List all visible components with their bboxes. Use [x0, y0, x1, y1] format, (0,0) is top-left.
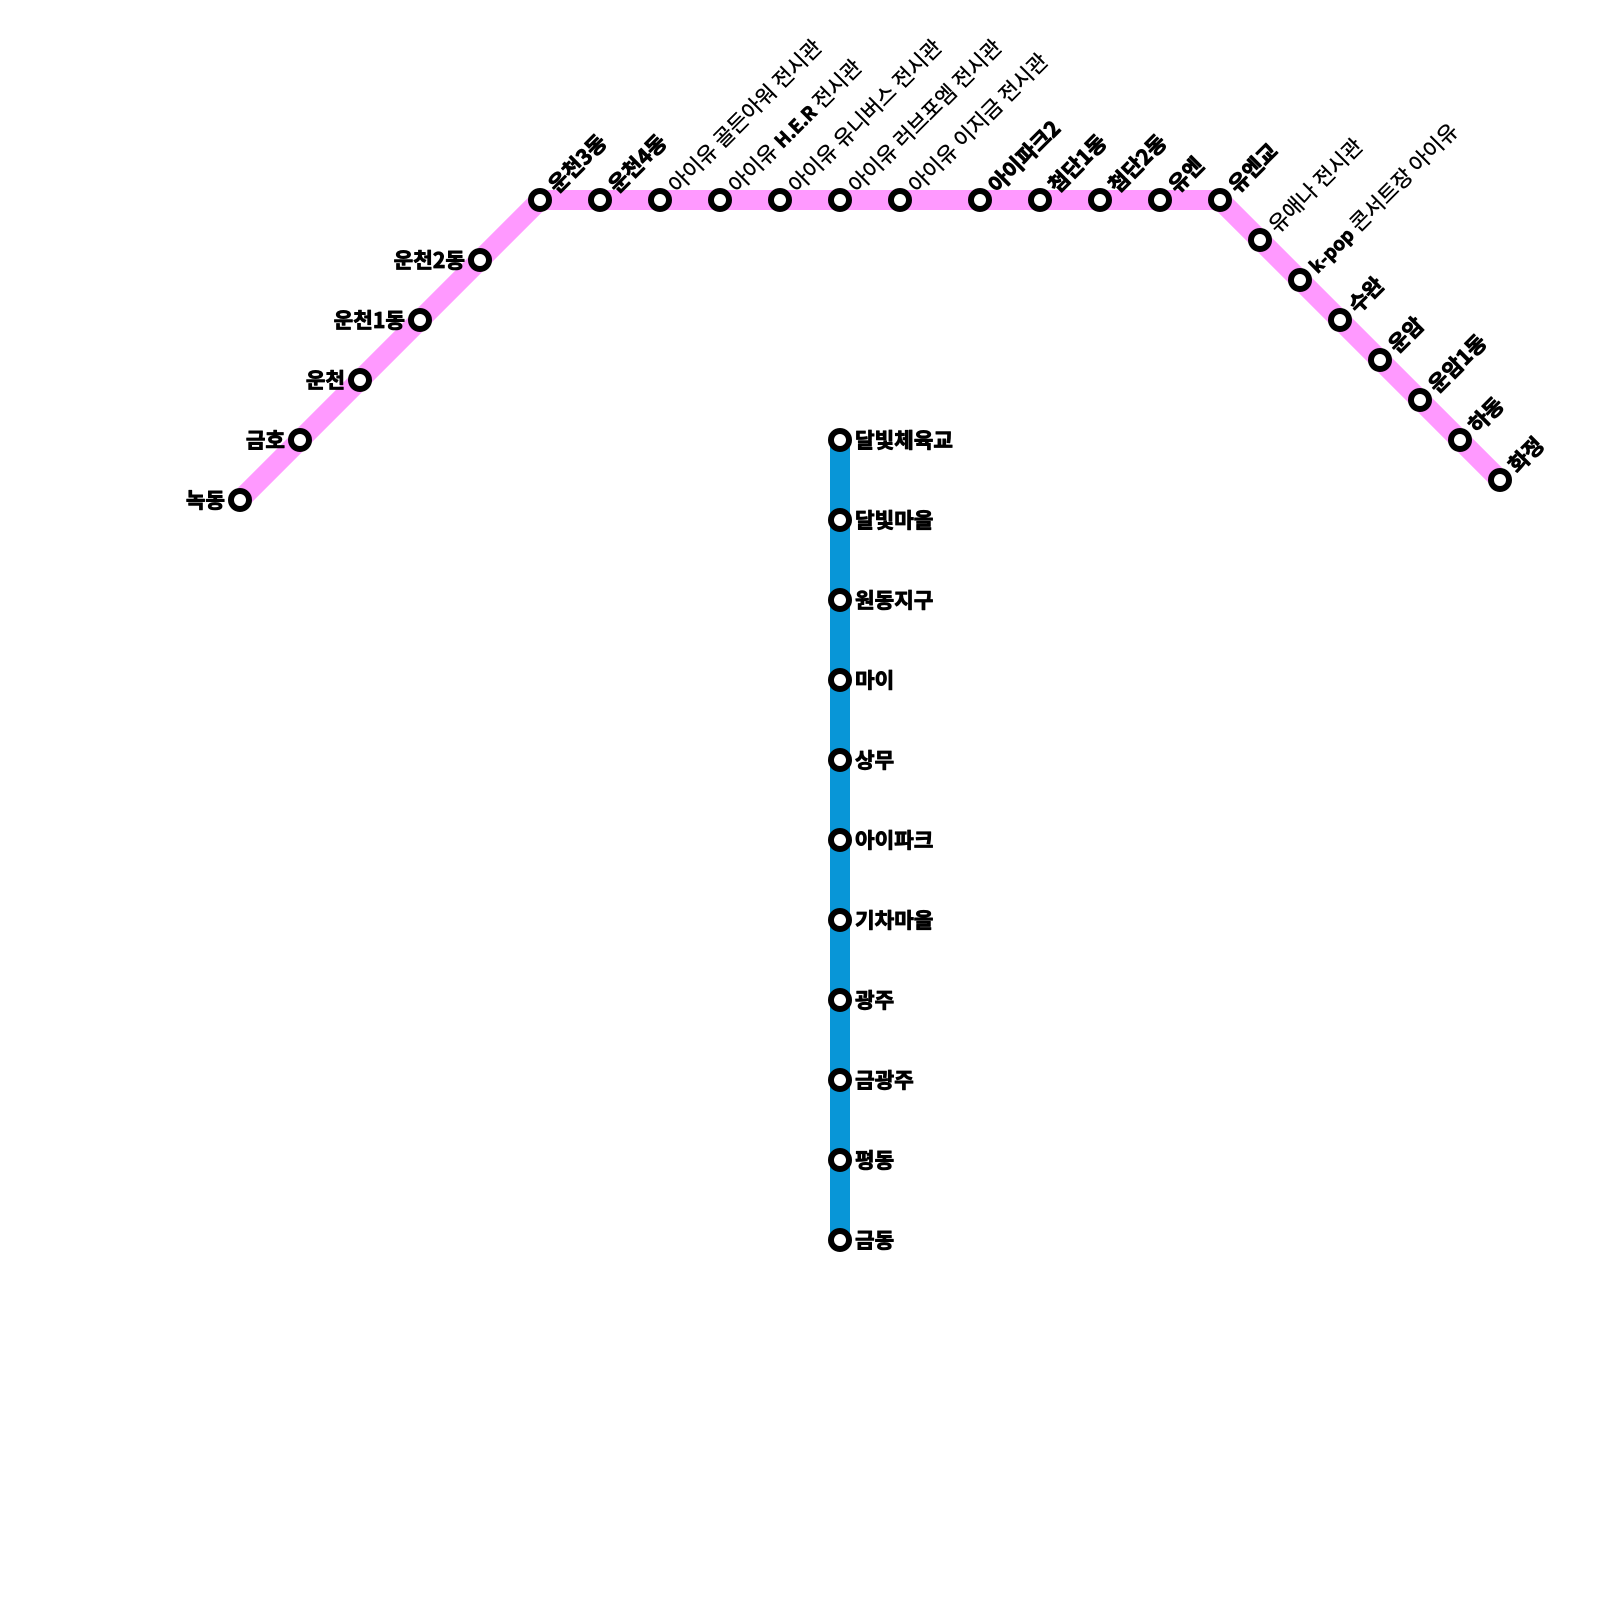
label 아이유 러브포엠 전시관: [846, 37, 1004, 195]
station 아이파크: [831, 831, 849, 849]
station 하동: [1451, 431, 1469, 449]
label 운천: [307, 370, 344, 389]
station 광주: [831, 991, 849, 1009]
label 아이유 이지금 전시관: [906, 51, 1050, 195]
station 원동지구: [831, 591, 849, 609]
station 운천3동: [531, 191, 549, 209]
label 첨단1동: [1045, 132, 1108, 195]
station 아이유 유니버스 전시관: [771, 191, 789, 209]
label 평동: [856, 1150, 893, 1170]
station 평동: [831, 1151, 849, 1169]
station 수완: [1331, 311, 1349, 329]
label 아이유 유니버스 전시관: [786, 37, 944, 195]
station 아이유 골든아워 전시관: [651, 191, 669, 209]
label 아이파크: [856, 830, 933, 850]
label 달빛마을: [857, 510, 933, 530]
label 유애나 전시관: [1266, 136, 1365, 235]
blue metro line 2 (달빛체육교-금동): [830, 440, 850, 1240]
station 기차마을: [831, 911, 849, 929]
station 운천4동: [591, 191, 609, 209]
label 광주: [856, 990, 894, 1010]
pink metro line 1 (녹동-화정): [240, 200, 1500, 500]
station 금호: [291, 431, 309, 449]
label 원동지구: [856, 590, 933, 610]
label 수완: [1346, 274, 1387, 315]
label 금호: [247, 430, 284, 449]
station 운천1동: [411, 311, 429, 329]
label 운천4동: [606, 132, 669, 195]
label 마이: [856, 670, 891, 690]
label 유엔교: [1226, 141, 1280, 195]
station 상무: [831, 751, 849, 769]
station 아이유 이지금 전시관: [891, 191, 909, 209]
label 하동: [1465, 394, 1506, 435]
station 아이파크2: [971, 191, 989, 209]
label 기차마을: [856, 910, 933, 930]
label 운암1동: [1426, 332, 1489, 395]
label 금동: [856, 1231, 893, 1250]
station 첨단2동: [1091, 191, 1109, 209]
station 마이: [831, 671, 849, 689]
station 금광주: [831, 1071, 849, 1089]
station 달빛체육교: [831, 431, 849, 449]
label 화정: [1505, 435, 1545, 475]
label 녹동: [187, 490, 224, 509]
label 금광주: [856, 1070, 913, 1090]
label 운천3동: [546, 132, 609, 195]
station 금동: [831, 1231, 849, 1249]
label 운암: [1386, 314, 1426, 354]
label 아이파크2: [986, 118, 1063, 195]
station k-pop 콘서트장 아이유: [1291, 271, 1309, 289]
label 유엔: [1166, 155, 1206, 195]
label 운천1동: [335, 310, 405, 330]
station 아이유 러브포엠 전시관: [831, 191, 849, 209]
label 아이유 H.E.R 전시관: [726, 57, 864, 195]
label k-pop 콘서트장 아이유: [1306, 121, 1461, 276]
station 운천: [351, 371, 369, 389]
station 화정: [1491, 471, 1509, 489]
station 첨단1동: [1031, 191, 1049, 209]
station 달빛마을: [831, 511, 849, 529]
label 운천2동: [395, 250, 465, 270]
station 운암: [1371, 351, 1389, 369]
station 운천2동: [471, 251, 489, 269]
station 아이유 H.E.R 전시관: [711, 191, 729, 209]
label 달빛체육교: [857, 430, 953, 450]
label 상무: [856, 750, 894, 770]
label 아이유 골든아워 전시관: [666, 37, 824, 195]
station 유엔교: [1211, 191, 1229, 209]
station 유애나 전시관: [1251, 231, 1269, 249]
label 첨단2동: [1105, 132, 1168, 195]
station 운암1동: [1411, 391, 1429, 409]
station 녹동: [231, 491, 249, 509]
station 유엔: [1151, 191, 1169, 209]
